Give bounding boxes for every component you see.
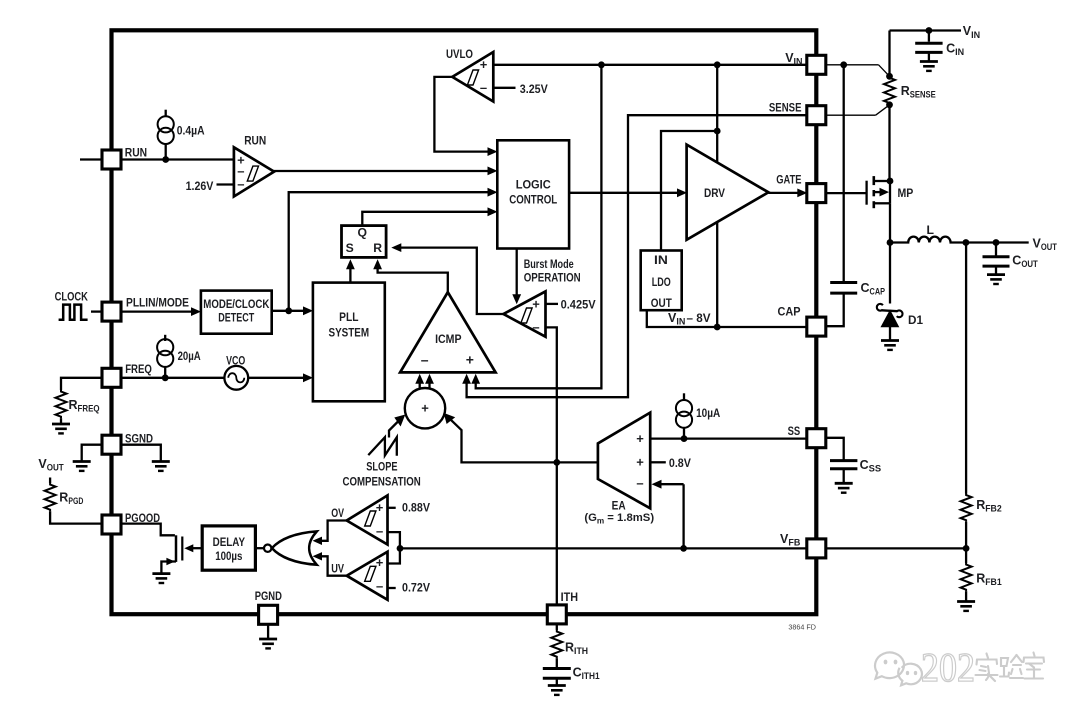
svg-text:SYSTEM: SYSTEM [329, 325, 370, 339]
svg-text:MODE/CLOCK: MODE/CLOCK [203, 297, 269, 311]
svg-text:10µA: 10µA [696, 406, 720, 420]
svg-text:SLOPE: SLOPE [366, 459, 397, 473]
svg-text:RUN: RUN [244, 134, 266, 148]
svg-text:–: – [376, 524, 383, 539]
svg-text:S: S [346, 241, 354, 255]
svg-text:ITH: ITH [561, 590, 578, 604]
svg-text:OV: OV [331, 506, 344, 520]
svg-text:+: + [376, 500, 384, 515]
svg-text:202: 202 [921, 644, 975, 690]
svg-text:LOGIC: LOGIC [516, 178, 551, 192]
svg-text:SGND: SGND [125, 431, 153, 445]
svg-text:VCO: VCO [226, 353, 245, 367]
svg-text:–: – [532, 320, 539, 335]
svg-text:CONTROL: CONTROL [509, 193, 557, 207]
svg-text:0.8V: 0.8V [669, 456, 692, 470]
svg-text:GATE: GATE [776, 172, 801, 186]
svg-text:PLLIN/MODE: PLLIN/MODE [126, 296, 189, 310]
svg-text:1.26V: 1.26V [186, 179, 215, 193]
svg-text:–: – [237, 176, 244, 191]
svg-text:RUN: RUN [125, 145, 147, 159]
svg-text:– 8V: – 8V [687, 311, 712, 325]
svg-text:Burst Mode: Burst Mode [524, 257, 574, 271]
svg-text:Q: Q [358, 226, 367, 240]
svg-text:ICMP: ICMP [435, 332, 461, 346]
svg-text:OUT: OUT [651, 296, 672, 310]
svg-text:–: – [421, 352, 429, 368]
svg-text:0.72V: 0.72V [402, 581, 431, 595]
svg-text:3.25V: 3.25V [520, 82, 549, 96]
svg-text:CAP: CAP [778, 305, 801, 319]
svg-text:L: L [927, 223, 935, 237]
svg-text:3864 FD: 3864 FD [788, 622, 816, 631]
svg-text:OPERATION: OPERATION [524, 271, 581, 285]
svg-text:FREQ: FREQ [125, 362, 152, 376]
svg-text:0.4µA: 0.4µA [177, 123, 205, 137]
svg-text:–: – [636, 476, 643, 491]
svg-text:+: + [636, 455, 644, 470]
svg-text:PGND: PGND [255, 589, 282, 603]
svg-text:100µs: 100µs [215, 549, 242, 563]
svg-text:DETECT: DETECT [218, 311, 254, 325]
svg-text:0.425V: 0.425V [561, 298, 597, 312]
svg-text:SENSE: SENSE [769, 100, 802, 114]
svg-text:EA: EA [612, 498, 626, 512]
svg-text:D1: D1 [908, 313, 923, 327]
svg-text:DELAY: DELAY [213, 535, 245, 549]
svg-text:R: R [373, 241, 382, 255]
svg-text:(Gm = 1.8mS): (Gm = 1.8mS) [584, 512, 654, 525]
svg-text:–: – [376, 579, 383, 594]
svg-text:–: – [480, 80, 487, 95]
svg-text:CLOCK: CLOCK [55, 290, 88, 304]
svg-text:COMPENSATION: COMPENSATION [343, 474, 421, 488]
svg-text:MP: MP [898, 186, 914, 200]
svg-text:DRV: DRV [704, 186, 726, 200]
svg-text:IN: IN [654, 253, 668, 267]
svg-text:+: + [480, 57, 488, 72]
svg-text:+: + [376, 555, 384, 570]
svg-text:+: + [421, 400, 429, 415]
svg-text:0.88V: 0.88V [402, 501, 431, 515]
svg-text:UVLO: UVLO [446, 47, 473, 61]
svg-text:+: + [466, 352, 474, 368]
svg-text:PLL: PLL [339, 310, 359, 324]
svg-text:SS: SS [788, 424, 801, 438]
svg-text:PGOOD: PGOOD [125, 511, 160, 525]
svg-text:20µA: 20µA [178, 349, 201, 363]
svg-text:UV: UV [331, 561, 344, 575]
svg-text:+: + [532, 296, 540, 311]
svg-text:+: + [636, 431, 644, 446]
svg-text:LDO: LDO [652, 275, 671, 289]
